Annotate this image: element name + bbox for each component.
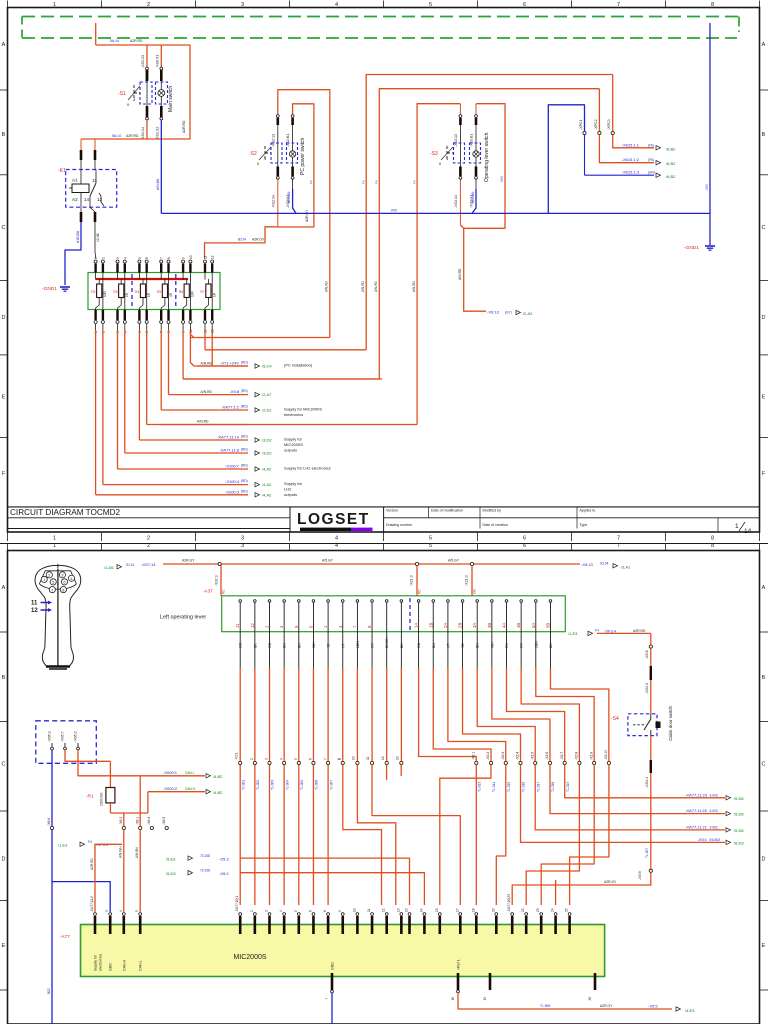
- svg-text:5: 5: [429, 536, 432, 542]
- wire loop from fan row4 to XPC2: [379, 89, 599, 379]
- MIC pin24 stub: [555, 880, 557, 905]
- wire A37 group2 5A staircase to X2:9: [535, 632, 537, 668]
- svg-text:14: 14: [419, 908, 423, 912]
- svg-text:(RD): (RD): [241, 361, 248, 365]
- svg-text:-XS4:3: -XS4:3: [645, 683, 649, 694]
- svg-text:13: 13: [396, 908, 400, 912]
- S3 blue wire to 0V rail: [475, 176, 477, 189]
- svg-text:A/N.BU: A/N.BU: [471, 191, 475, 203]
- branch pin10 to X71 row: [190, 338, 248, 367]
- svg-text:4R: 4R: [169, 292, 173, 297]
- relay K1 switch contact: [95, 170, 97, 184]
- X6 contacts circles: [122, 826, 125, 829]
- svg-text:-XS3:14: -XS3:14: [454, 195, 458, 208]
- joystick center shaft: [57, 569, 59, 668]
- svg-text:73-108: 73-108: [200, 854, 210, 858]
- svg-text:C: C: [762, 225, 766, 231]
- svg-text:GND: GND: [331, 962, 335, 970]
- svg-text:4: 4: [123, 257, 127, 259]
- joystick buttons: [46, 572, 52, 578]
- A37 pin group1 9: [356, 601, 358, 612]
- svg-text:TL-016: TL-016: [522, 782, 526, 792]
- relay K1 dashed box: [66, 170, 117, 208]
- svg-text:-XA77,11:14: -XA77,11:14: [217, 435, 240, 440]
- svg-text:8: 8: [711, 2, 714, 8]
- svg-text:3A: 3A: [472, 623, 477, 628]
- wire A37 group2 4A staircase to X2:7: [506, 632, 508, 668]
- svg-text:A/N.RD: A/N.RD: [374, 280, 378, 292]
- svg-text:23: 23: [536, 908, 540, 912]
- svg-text:F6: F6: [412, 180, 416, 184]
- svg-text:TL-005: TL-005: [300, 780, 304, 790]
- S1 blue wire to 0V rail: [160, 117, 162, 213]
- svg-text:F4: F4: [595, 629, 599, 633]
- svg-text:TL-007: TL-007: [329, 780, 333, 790]
- svg-text:E: E: [762, 943, 766, 949]
- svg-text:1R: 1R: [212, 292, 216, 297]
- svg-text:12: 12: [382, 908, 386, 912]
- MIC pin 10: [356, 913, 359, 916]
- svg-text:-XS1:X2: -XS1:X2: [155, 127, 159, 140]
- svg-text:/4,A2: /4,A2: [262, 482, 272, 487]
- svg-text:TL-004: TL-004: [285, 780, 289, 790]
- fan wire terminal pin 10 to row 1: [189, 324, 191, 330]
- svg-text:A2R.RD: A2R.RD: [182, 120, 186, 133]
- svg-text:-XS3:B1: -XS3:B1: [470, 134, 474, 147]
- svg-text:15: 15: [435, 908, 439, 912]
- S2 lamp loop wire: [278, 104, 314, 227]
- svg-text:C: C: [2, 761, 6, 767]
- terminal 12 pins: [211, 264, 213, 273]
- svg-text:TL-018: TL-018: [551, 782, 555, 792]
- svg-text:/2,D1: /2,D1: [262, 408, 272, 413]
- MIC2000S yellow module box: [81, 925, 605, 977]
- resistor -R3: [120, 279, 122, 284]
- svg-text:5: 5: [429, 543, 432, 549]
- svg-text:A/N.RD: A/N.RD: [412, 280, 416, 292]
- svg-text:12: 12: [211, 255, 215, 259]
- svg-text:-X71:+24V: -X71:+24V: [220, 361, 239, 366]
- svg-text:electronics: electronics: [284, 412, 303, 417]
- svg-text:MIC2000S: MIC2000S: [284, 442, 303, 447]
- svg-text:A/N.RD: A/N.RD: [201, 362, 213, 366]
- wire XF3.4 to S4 branch: [597, 632, 651, 634]
- svg-text:A1: A1: [72, 178, 78, 183]
- page 1 bottom ruler: [7, 532, 9, 541]
- svg-text:Date of modification: Date of modification: [431, 509, 463, 513]
- LOGSET logo: [289, 507, 291, 532]
- svg-text:3-003: 3-003: [710, 793, 718, 797]
- label row -XA77,11:14: [96, 439, 248, 441]
- svg-text:/4,B2: /4,B2: [213, 774, 223, 779]
- svg-text:-X615.1:1: -X615.1:1: [622, 142, 640, 147]
- A37 pin group2 4A: [506, 601, 508, 612]
- svg-text:GY: GY: [371, 642, 375, 648]
- svg-text:3-002: 3-002: [710, 825, 718, 829]
- svg-text:TL-017: TL-017: [536, 782, 540, 792]
- diagonal jog at pin10 row junction: [190, 334, 194, 338]
- svg-text:(RD): (RD): [241, 435, 248, 439]
- svg-text:VT: VT: [446, 643, 450, 648]
- svg-text:-GND1: -GND1: [42, 286, 57, 292]
- svg-text:5A: 5A: [531, 623, 536, 628]
- svg-text:3: 3: [241, 536, 244, 542]
- MIC pin 24: [554, 913, 557, 916]
- svg-text:A2R.GY: A2R.GY: [305, 209, 309, 222]
- row wire 5: [161, 409, 248, 411]
- wire X2:7 to XA77 row1: [565, 765, 700, 798]
- svg-text:1: 1: [53, 536, 56, 542]
- svg-text:A: A: [762, 42, 766, 48]
- svg-text:/5,C4: /5,C4: [262, 364, 272, 369]
- A37 pin group2 2A: [447, 601, 449, 612]
- svg-text:CAN L: CAN L: [139, 960, 143, 971]
- svg-text:9: 9: [182, 257, 186, 259]
- svg-text:-XA77,10(1: -XA77,10(1: [235, 896, 239, 912]
- svg-text:TL-001: TL-001: [241, 780, 245, 790]
- svg-text:YE: YE: [327, 643, 331, 648]
- fan wire terminal pin 8 to row 5: [168, 324, 170, 330]
- svg-text:-XS1:13: -XS1:13: [141, 55, 145, 68]
- terminal 11 pins: [204, 264, 206, 273]
- svg-text:19: 19: [483, 997, 487, 1001]
- svg-text:Main switch: Main switch: [168, 86, 174, 112]
- svg-text:5: 5: [138, 257, 142, 259]
- wire X2:6 to XA77 row2: [550, 765, 700, 814]
- top wire segment 3: [419, 563, 470, 565]
- wire A37 group2 3B staircase to X2:6: [491, 632, 493, 668]
- A37 pin group2 5B: [549, 601, 551, 612]
- terminal 9 pins: [182, 264, 184, 273]
- svg-text:TL-013: TL-013: [478, 782, 482, 792]
- svg-text:TL-019: TL-019: [566, 782, 570, 792]
- long fan row wires: [197, 365, 248, 367]
- svg-text:CIRCUIT DIAGRAM TOCMD2: CIRCUIT DIAGRAM TOCMD2: [10, 508, 121, 517]
- svg-text:/5,D3: /5,D3: [166, 871, 176, 876]
- svg-text:-X6:4: -X6:4: [147, 817, 151, 825]
- svg-text:A/N.BU: A/N.BU: [287, 191, 291, 203]
- svg-text:11: 11: [235, 623, 240, 628]
- svg-text:-XA77,11:23: -XA77,11:23: [685, 792, 708, 797]
- svg-text:1A: 1A: [414, 623, 419, 628]
- svg-text:A2R.GY: A2R.GY: [252, 238, 265, 242]
- svg-text:-X65:3: -X65:3: [48, 731, 52, 742]
- row wire 4: [169, 394, 249, 396]
- A37 pin group1 1: [239, 601, 241, 612]
- MIC pin 8: [327, 913, 330, 916]
- wire X2:1 to MIC pin18: [475, 765, 477, 905]
- blue dashed separator in A37: [409, 598, 411, 630]
- svg-text:A/5.GY: A/5.GY: [322, 559, 334, 563]
- wire A37 group2 1B staircase to X2:2: [432, 632, 434, 668]
- row wire 6: [147, 424, 248, 426]
- main switch S1 pole 2 with lamp: [160, 45, 162, 70]
- wire X2:10 to MIC pin25: [570, 765, 609, 905]
- CAN wires to MIC pins: [123, 830, 125, 912]
- svg-text:/6,B2: /6,B2: [666, 146, 676, 151]
- svg-text:-X615.1:2: -X615.1:2: [622, 157, 640, 162]
- svg-text:-X2:7: -X2:7: [560, 752, 564, 760]
- svg-text:R7: R7: [200, 290, 204, 294]
- resistor -R6: [186, 279, 188, 284]
- svg-text:E5-B02: E5-B02: [710, 838, 721, 842]
- MIC pin 25: [568, 913, 571, 916]
- label row -X100:7: [96, 468, 248, 470]
- resistor R1: [109, 761, 111, 787]
- svg-text:-X2:3: -X2:3: [501, 752, 505, 760]
- svg-text:-K1: -K1: [58, 168, 66, 174]
- svg-text:/2,A2: /2,A2: [523, 311, 533, 316]
- svg-text:-S2: -S2: [249, 151, 257, 157]
- A37 pin group1 4: [283, 601, 285, 612]
- svg-text:Supply for: Supply for: [94, 954, 98, 971]
- svg-text:LH2: LH2: [284, 487, 292, 492]
- svg-text:RD: RD: [222, 589, 226, 594]
- svg-text:11: 11: [31, 601, 38, 607]
- svg-text:25: 25: [565, 908, 569, 912]
- blue branch to MIC GND pin: [52, 882, 110, 912]
- svg-text:/6,D3: /6,D3: [734, 840, 744, 845]
- svg-text:1R: 1R: [125, 292, 129, 297]
- wire from fan row7 to S3 pole1: [417, 104, 460, 425]
- svg-text:-X2:10: -X2:10: [604, 750, 608, 760]
- svg-text:B: B: [762, 675, 766, 681]
- svg-text:-X5:8: -X5:8: [645, 650, 649, 659]
- svg-text:-X5:2: -X5:2: [219, 871, 229, 876]
- fan wire terminal pin 6 to row 7: [146, 324, 148, 330]
- svg-text:/5,D6: /5,D6: [734, 828, 744, 833]
- CAN row2 wire: [148, 791, 205, 793]
- svg-text:-X000:1: -X000:1: [163, 770, 178, 775]
- svg-text:Modified by: Modified by: [483, 509, 502, 513]
- A37 pin group2 5A: [535, 601, 537, 612]
- right edge label rows XA77: [700, 797, 725, 799]
- svg-text:-X31:3: -X31:3: [215, 575, 219, 586]
- top wire to X9:13 A1: [474, 563, 580, 565]
- svg-text:BK: BK: [549, 643, 553, 648]
- svg-text:7: 7: [617, 536, 620, 542]
- terminal 6 pins: [145, 264, 147, 273]
- svg-text:R6: R6: [179, 290, 183, 294]
- svg-text:5A:14: 5A:14: [110, 39, 119, 43]
- MIC pin 2: [253, 913, 256, 916]
- svg-text:11: 11: [366, 756, 370, 760]
- svg-text:-X21:3: -X21:3: [465, 575, 469, 586]
- svg-text:6: 6: [523, 536, 526, 542]
- svg-text:3-003: 3-003: [710, 809, 718, 813]
- svg-text:3: 3: [241, 543, 244, 549]
- svg-text:GND: GND: [109, 963, 113, 971]
- cabin door switch S4: [628, 714, 657, 736]
- svg-text:-XS0:X1: -XS0:X1: [155, 55, 159, 68]
- wire A37 group1 pin 12 down: [400, 632, 402, 668]
- wire A37 group1 pin 2 down: [254, 632, 256, 668]
- terminal 7 pins: [160, 264, 162, 273]
- left operating lever connector A37 green box: [222, 596, 566, 632]
- svg-text:12: 12: [250, 623, 255, 628]
- operating lever switch S3 pole 2 with lamp: [475, 118, 478, 125]
- MIC pin 20: [495, 913, 498, 916]
- svg-text:1: 1: [53, 543, 56, 549]
- wire X2:8 to MIC pin22: [526, 765, 579, 905]
- svg-text:/4,E3: /4,E3: [685, 1008, 695, 1013]
- wire A37 group2 2B staircase to X2:4: [462, 632, 464, 668]
- svg-text:CAN H: CAN H: [122, 959, 126, 971]
- svg-text:2: 2: [101, 257, 105, 259]
- svg-text:-X100:7: -X100:7: [225, 464, 240, 469]
- ground GND1 right: [705, 245, 715, 247]
- wire A37 group2 5B staircase to X2:10: [549, 632, 551, 668]
- A37 pin group1 12: [400, 601, 402, 612]
- svg-text:5: 5: [294, 758, 298, 760]
- svg-text:-R1: -R1: [86, 794, 94, 799]
- svg-text:-X615.1:3: -X615.1:3: [622, 170, 640, 175]
- S2 blue wire to 0V rail: [292, 176, 294, 189]
- svg-text:-X6:2: -X6:2: [119, 817, 123, 825]
- svg-text:D: D: [2, 315, 6, 321]
- svg-text:12: 12: [31, 608, 38, 614]
- svg-text:A/N.RD: A/N.RD: [201, 390, 213, 394]
- svg-text:GN: GN: [268, 642, 272, 648]
- joystick left operating lever drawing: [35, 565, 81, 666]
- label row -XA77,11:8: [96, 452, 248, 454]
- blue gnd wire from X65:3: [51, 750, 53, 1024]
- MIC pin 17: [459, 913, 462, 916]
- svg-text:/4,A2: /4,A2: [262, 492, 272, 497]
- svg-text:10R: 10R: [191, 290, 195, 297]
- MIC pin 14: [423, 913, 426, 916]
- svg-text:Supply for LH2 electronics: Supply for LH2 electronics: [284, 466, 331, 471]
- svg-text:+Ref 1: +Ref 1: [457, 959, 461, 970]
- svg-text:2: 2: [147, 536, 150, 542]
- svg-text:BU: BU: [283, 643, 287, 648]
- svg-text:(RD): (RD): [241, 464, 248, 468]
- svg-text:-XA77,11:21: -XA77,11:21: [685, 824, 708, 829]
- svg-text:TL-014: TL-014: [492, 782, 496, 792]
- svg-text:BN: BN: [476, 643, 480, 648]
- svg-text:7: 7: [617, 2, 620, 8]
- XS4:3 contact: [650, 666, 652, 680]
- svg-text:-X5:3: -X5:3: [219, 857, 229, 862]
- svg-text:R4: R4: [135, 290, 139, 294]
- XS4:4 contact: [650, 760, 652, 773]
- svg-text:D: D: [762, 315, 766, 321]
- svg-text:17: 17: [455, 908, 459, 912]
- wire A37 group1 pin 6 down: [312, 632, 314, 668]
- svg-text:/2,A7: /2,A7: [262, 392, 272, 397]
- svg-text:/6,B2: /6,B2: [666, 174, 676, 179]
- svg-text:-X2:8: -X2:8: [575, 752, 579, 760]
- wire X2:9 to MIC pin23: [541, 765, 594, 905]
- svg-text:1R: 1R: [147, 292, 151, 297]
- svg-text:PK: PK: [505, 643, 509, 648]
- wire group1 BKWH stub: [386, 765, 388, 780]
- XPC1 blue loop: [548, 105, 584, 214]
- X5:8 contact: [649, 645, 652, 648]
- title block fields: [428, 507, 430, 518]
- svg-text:(PC installation): (PC installation): [284, 363, 313, 368]
- svg-text:F6: F6: [375, 180, 379, 184]
- svg-text:Drawing number: Drawing number: [386, 523, 413, 527]
- svg-text:12: 12: [97, 197, 103, 202]
- svg-text:-X200:3: -X200:3: [225, 489, 240, 494]
- svg-text:-X21:3: -X21:3: [410, 575, 414, 586]
- svg-text:4A: 4A: [502, 623, 507, 628]
- svg-text:-XPC1: -XPC1: [579, 119, 583, 130]
- wire X2:4 to X5:1 row: [521, 765, 701, 843]
- svg-text:-X9:13: -X9:13: [581, 562, 594, 567]
- svg-text:LBN: LBN: [534, 641, 538, 648]
- wire A37 group1 pin 8 down: [342, 632, 344, 668]
- svg-text:/3,D2: /3,D2: [262, 438, 272, 443]
- svg-text:4: 4: [335, 543, 338, 549]
- fan wire terminal pin 11 to row 2: [204, 324, 206, 330]
- PC power switch S2 pole 2 with lamp: [291, 118, 294, 125]
- svg-text:-S1: -S1: [118, 91, 126, 97]
- fan wire terminal pin 2 to row 11: [102, 324, 104, 330]
- wire A37 group1 pin 3 down: [269, 632, 271, 668]
- svg-text:5: 5: [294, 910, 298, 912]
- svg-text:(RD): (RD): [241, 479, 248, 483]
- MIC pin 13: [408, 913, 411, 916]
- svg-text:-XA77,11:22: -XA77,11:22: [685, 808, 708, 813]
- fan wire terminal pin 3 to row 10: [117, 324, 119, 330]
- svg-text:24: 24: [551, 908, 555, 912]
- fan wire terminal pin 5 to row 8: [138, 324, 140, 330]
- svg-text:OG: OG: [239, 642, 243, 648]
- wire X5:9 to MIC pin21: [512, 872, 651, 905]
- svg-text:-XS4:4: -XS4:4: [645, 777, 649, 788]
- svg-text:-X000:2: -X000:2: [163, 786, 178, 791]
- wire A37 group2 1A staircase to X2:1: [418, 632, 420, 668]
- svg-text:E: E: [2, 395, 6, 401]
- top wire segment 2: [222, 563, 416, 565]
- relay K1 contact 14 wire to terminal: [94, 212, 97, 222]
- svg-text:-XA77,10(23: -XA77,10(23: [507, 894, 511, 912]
- svg-text:R2: R2: [91, 290, 95, 294]
- svg-text:-X5:1: -X5:1: [697, 837, 707, 842]
- A37 pin group1 5: [298, 601, 300, 612]
- svg-text:R3: R3: [113, 290, 117, 294]
- svg-text:-X6:5: -X6:5: [162, 817, 166, 825]
- svg-text:11: 11: [204, 255, 208, 259]
- svg-text:(GN): (GN): [648, 171, 655, 175]
- svg-text:-X2:5: -X2:5: [530, 752, 534, 760]
- label row -X5:8: [96, 394, 248, 396]
- X5:9 contact: [649, 869, 652, 872]
- svg-text:10: 10: [352, 756, 356, 760]
- row wire 9: [118, 468, 249, 470]
- A37 pin group2 3A: [476, 601, 478, 612]
- 0V blue rail: [161, 212, 710, 214]
- svg-text:(RD): (RD): [241, 448, 248, 452]
- svg-text:LOGSET: LOGSET: [297, 511, 370, 528]
- MIC pin 15: [438, 913, 441, 916]
- svg-text:73-108: 73-108: [200, 869, 210, 873]
- svg-text:8: 8: [711, 536, 714, 542]
- svg-text:-XA77:1:2: -XA77:1:2: [221, 405, 240, 410]
- wire loop from fan row2 to XPC3: [366, 75, 613, 350]
- svg-text:B2J4: B2J4: [238, 238, 246, 242]
- svg-text:MIC2000S: MIC2000S: [233, 954, 266, 961]
- svg-text:A/5.GY: A/5.GY: [448, 559, 460, 563]
- svg-text:CAN L: CAN L: [185, 771, 195, 775]
- svg-text:TL-003: TL-003: [271, 780, 275, 790]
- fan wire terminal pin 9 to row 4: [182, 324, 184, 330]
- svg-text:A: A: [2, 585, 6, 591]
- svg-text:11: 11: [367, 908, 371, 912]
- svg-text:12,48: 12,48: [96, 233, 100, 242]
